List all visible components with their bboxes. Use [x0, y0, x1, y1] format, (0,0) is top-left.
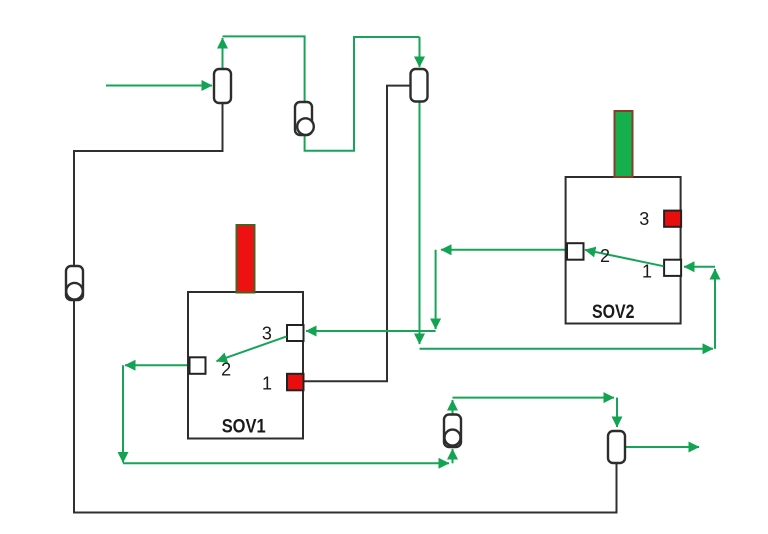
wire: green vertical down from SOV2 port 2 line [435, 250, 437, 329]
wire: green arrow up from V5 top [452, 400, 454, 415]
wire: green from SOV2 port 2 going left [441, 249, 567, 251]
wire: green vertical up toward SOV2 port 1 [714, 269, 716, 349]
wire: green supply arrow into valve V1 [106, 85, 212, 87]
wire: green horizontal run right toward check valve V5 [123, 462, 449, 464]
svg-text:1: 1 [262, 374, 272, 394]
svg-text:1: 1 [642, 262, 652, 282]
wire: green arrow left into SOV1 port 3 [306, 330, 436, 332]
wire: green from V2 bottom, right, up and over toward valve V3 [305, 37, 420, 151]
SOV1 port 2 [190, 357, 206, 374]
wire: green up from valve V1 top [222, 38, 224, 69]
wire: green horizontal run to the right toward SOV2 [420, 348, 714, 350]
wire: green from SOV1 port 2 going left [125, 364, 190, 366]
check valve V4 (far left) body [66, 266, 83, 300]
SOV2 box [566, 177, 681, 324]
SOV2 port 2 [567, 243, 584, 260]
wire: green arrow up into V5 bottom [452, 449, 454, 463]
SOV1 port 3 [287, 325, 304, 341]
wire: green top run to check valve V2 [223, 36, 305, 102]
check valve V5 ball [445, 430, 461, 446]
svg-text:3: 3 [639, 209, 649, 229]
check valve V2 (top middle) body [295, 102, 312, 135]
wire: green arrow left into SOV2 port 1 [684, 266, 715, 268]
svg-text:SOV1: SOV1 [222, 417, 266, 438]
check valve V5 (bottom centre) body [444, 415, 461, 448]
SOV2 port 3 (red, blocked) [664, 211, 681, 227]
SOV2 internal flow arrow port1 to port2 [585, 250, 664, 266]
wire: black from valve V1 bottom, left, down through check valve V4, along bottom, up to valve V6 [74, 103, 617, 513]
valve V3 (upper, feeds down line) [411, 69, 428, 102]
wire: green vertical down on left of SOV1 [122, 365, 124, 462]
wire: green long vertical from valve V3 bottom down [419, 102, 421, 345]
SOV1 internal flow arrow port3 to port2 [217, 336, 287, 361]
valve V6 (bottom right) [608, 431, 625, 463]
SOV2 port 1 [664, 260, 681, 276]
wire: black from SOV1 port 1 right, up, to valve V3 left side [304, 86, 410, 382]
check valve V2 ball [297, 118, 314, 135]
wire: green outlet arrow right from valve V6 [625, 446, 699, 448]
SOV1 stem (red, energized indicator) [237, 225, 255, 293]
svg-text:2: 2 [221, 360, 231, 380]
SOV1 box [188, 292, 303, 439]
wire: green horizontal run right above valve V6 [453, 397, 615, 399]
SOV2 stem (green, energized indicator) [615, 111, 633, 177]
SOV1 port 1 (red, blocked) [287, 374, 304, 391]
svg-text:SOV2: SOV2 [592, 302, 635, 323]
svg-text:2: 2 [600, 246, 610, 266]
valve V1 (top left) [214, 69, 231, 103]
svg-text:3: 3 [262, 324, 272, 344]
check valve V4 ball [66, 283, 83, 300]
wire: green down arrow into valve V6 top [616, 398, 618, 427]
wire: green down arrow into valve V3 top [419, 37, 421, 67]
